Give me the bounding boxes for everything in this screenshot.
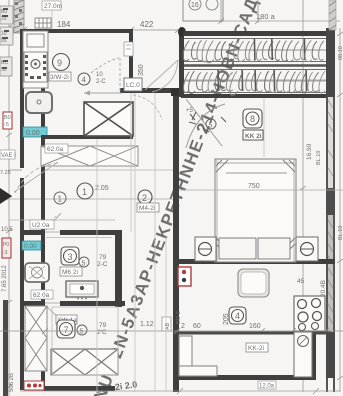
bathtub	[51, 349, 118, 375]
kitchen counter left strip	[23, 31, 48, 88]
svg-text:KK-2i: KK-2i	[248, 345, 264, 352]
entry door arc	[145, 60, 178, 92]
door arc room1	[14, 162, 58, 193]
svg-text:M6 2i: M6 2i	[62, 269, 78, 276]
sink rounded	[26, 92, 52, 113]
circle 1 big	[77, 183, 93, 199]
svg-text:16: 16	[191, 2, 199, 9]
svg-text:3/W-2i: 3/W-2i	[50, 74, 69, 81]
door circle 4	[78, 73, 90, 85]
wall left edge bottom	[3, 300, 8, 396]
teal label A	[23, 127, 47, 137]
svg-text:2: 2	[142, 193, 147, 203]
wall bathroom right	[115, 232, 122, 307]
bathroom inner line	[46, 237, 112, 239]
label XW-2i	[49, 72, 71, 81]
wall wardrobe bottom	[181, 94, 335, 98]
corridor door arc	[133, 95, 162, 120]
pillow right	[258, 238, 290, 259]
wardrobe shelf line	[184, 64, 326, 67]
label M4-2i	[137, 203, 159, 212]
svg-text:79: 79	[99, 322, 107, 329]
svg-text:08.10: 08.10	[338, 46, 343, 60]
wardrobe rail 2	[184, 79, 326, 81]
label 62.0a	[45, 144, 68, 153]
svg-text:B0: B0	[4, 115, 11, 121]
svg-text:750: 750	[248, 183, 260, 190]
duct hatch left strip	[25, 306, 47, 371]
svg-text:45: 45	[297, 278, 305, 285]
svg-text:10: 10	[96, 72, 103, 78]
svg-text:2'C: 2'C	[97, 329, 107, 336]
washing machine	[25, 263, 49, 282]
circle 5b	[77, 325, 87, 335]
svg-text:5: 5	[82, 261, 86, 268]
label 10.0m box	[124, 78, 142, 91]
wardrobe hanger band 1	[183, 39, 326, 63]
dim line bottom y331	[0, 328, 343, 334]
svg-text:P0: P0	[3, 242, 9, 248]
wall wardrobe top	[183, 31, 335, 36]
svg-text:2-C: 2-C	[97, 261, 108, 268]
label M6-2i	[60, 267, 82, 276]
svg-text:+5: +5	[186, 108, 194, 114]
door leaf bath7	[46, 306, 61, 320]
svg-text:-5: -5	[4, 122, 9, 128]
wall bath3/7 divider	[20, 301, 45, 306]
svg-text:KK 2i: KK 2i	[245, 133, 262, 140]
window hatch right top	[329, 0, 336, 30]
wall inner vertical x41	[41, 29, 45, 390]
svg-text:4: 4	[82, 76, 87, 85]
svg-text:184: 184	[57, 20, 71, 29]
svg-text:2-C: 2-C	[96, 79, 106, 85]
label XW-1a	[56, 315, 77, 324]
red label left edge	[3, 112, 12, 129]
svg-text:62 0a: 62 0a	[33, 292, 50, 299]
circle 3	[61, 247, 79, 265]
door circle 5	[206, 119, 216, 129]
svg-text:5: 5	[209, 123, 213, 130]
svg-text:12.0a: 12.0a	[259, 384, 275, 390]
circle 7	[57, 320, 75, 338]
pillow left	[219, 238, 256, 259]
right cabinet	[294, 332, 312, 377]
wall corridor horizontal y88	[120, 88, 179, 93]
L-counter room4	[179, 336, 217, 376]
burners unit	[294, 296, 325, 331]
grid box (vent)	[35, 18, 51, 28]
svg-text:7: 7	[64, 325, 69, 335]
floor line y170	[45, 169, 173, 171]
leader line 27.0m	[51, 10, 53, 29]
red label left mid	[2, 238, 11, 258]
circle 5a	[79, 257, 89, 267]
svg-text:8: 8	[250, 114, 255, 124]
circle 8	[243, 109, 262, 128]
top-right dim line	[183, 0, 340, 24]
svg-text:9: 9	[57, 58, 62, 68]
wall right outer	[326, 28, 335, 97]
svg-text:M4-2i: M4-2i	[139, 205, 155, 212]
svg-text:U2 0a: U2 0a	[32, 222, 50, 229]
svg-text:60: 60	[193, 323, 201, 330]
wall bottom kitchen divider	[177, 332, 331, 335]
switch box	[124, 42, 133, 56]
vanity sink	[66, 281, 98, 299]
svg-text:79: 79	[99, 254, 107, 261]
bed	[215, 159, 296, 262]
table	[238, 269, 269, 297]
svg-text:27.0m: 27.0m	[44, 3, 62, 10]
red radiator	[178, 267, 191, 286]
svg-text:180 a: 180 a	[256, 12, 276, 21]
svg-text:BL.10: BL.10	[338, 226, 343, 240]
dim line y220	[9, 219, 115, 221]
left margin annotation boxes	[0, 6, 13, 76]
label 62 0a low	[31, 290, 53, 299]
legend box top-right (cut)	[183, 0, 223, 21]
section line horizontal left	[0, 198, 173, 200]
circle 4 room	[229, 307, 246, 324]
label 12.0a	[258, 381, 276, 390]
column dot	[178, 27, 186, 37]
svg-text:2: 2	[181, 323, 185, 330]
wall bottom-left	[42, 386, 115, 391]
bedroom door arc	[186, 99, 225, 148]
svg-text:5: 5	[80, 329, 84, 336]
circle 2	[138, 190, 152, 204]
label 62.0a upper bath	[30, 220, 54, 229]
svg-text:BL.10: BL.10	[316, 151, 322, 165]
label VAE I	[0, 150, 16, 159]
red burners bottom-left	[24, 381, 44, 390]
wall top-left horizontal	[20, 29, 133, 33]
wall kitchen right x129	[129, 29, 133, 93]
wall wardrobe left	[179, 30, 184, 97]
dim line left vertical	[6, 0, 12, 396]
svg-text:1: 1	[58, 195, 63, 204]
room7 outline	[52, 307, 118, 375]
circle 1 small	[54, 192, 66, 204]
svg-text:7.25: 7.25	[0, 170, 11, 176]
teal label B	[22, 241, 41, 250]
section marker triangle	[0, 188, 12, 204]
svg-text:350: 350	[138, 64, 145, 76]
svg-text:62.0a: 62.0a	[47, 146, 64, 153]
nightstand left	[195, 237, 216, 261]
wall left outer vertical	[20, 29, 24, 168]
wardrobe rail 1	[184, 49, 326, 51]
door leaf bath3	[46, 213, 61, 230]
svg-text:506 2B: 506 2B	[9, 373, 15, 392]
svg-text:205: 205	[223, 313, 230, 325]
svg-text:0.00: 0.00	[26, 130, 40, 137]
wall bathroom top	[20, 230, 45, 235]
bottom dim line	[20, 388, 340, 394]
right edge small rotated labels	[316, 46, 343, 240]
dim line right vertical x303	[300, 0, 306, 392]
top dim line	[9, 27, 181, 33]
room9 circle	[53, 54, 70, 71]
faint verticals	[97, 93, 264, 392]
svg-text:-3: -3	[3, 250, 8, 256]
shaft X box	[84, 102, 133, 136]
hatch band room1	[41, 146, 138, 166]
svg-text:7.65 2012: 7.65 2012	[2, 265, 8, 292]
svg-text:LC.0: LC.0	[126, 82, 140, 89]
svg-text:422: 422	[140, 20, 154, 29]
door arc room9	[84, 58, 122, 96]
svg-text:16.90: 16.90	[306, 143, 313, 160]
nightstand right	[296, 237, 318, 261]
stove dots	[25, 55, 46, 79]
label KK 2i	[243, 130, 263, 140]
label KK-2i bottom	[246, 343, 268, 352]
small AB box	[162, 317, 171, 331]
label 27.0m	[42, 1, 62, 10]
svg-text:1.12: 1.12	[140, 321, 154, 328]
section line horizontal right	[179, 189, 343, 191]
wall bedroom bottom	[173, 259, 335, 264]
wall bottom-right	[177, 375, 316, 380]
svg-text:1: 1	[82, 187, 87, 197]
svg-text:4: 4	[235, 311, 240, 321]
bed blanket line	[226, 172, 287, 174]
bed corner folds	[216, 160, 295, 250]
wardrobe hanger band 2	[183, 70, 326, 96]
svg-text:VAE I: VAE I	[1, 153, 16, 159]
svg-text:160: 160	[249, 323, 261, 330]
watermark	[90, 0, 262, 396]
wall cabinet right vertical	[312, 332, 316, 380]
dim line right edge x340	[337, 28, 343, 392]
svg-text:20.4B: 20.4B	[320, 280, 327, 297]
wall kitchen bottom y135	[41, 135, 133, 139]
svg-text:10.5: 10.5	[1, 227, 13, 233]
svg-text:3: 3	[68, 252, 73, 262]
hatched masonry strip top-left	[14, 0, 24, 33]
wall central vertical	[173, 88, 179, 392]
svg-text:0.00: 0.00	[24, 243, 37, 250]
